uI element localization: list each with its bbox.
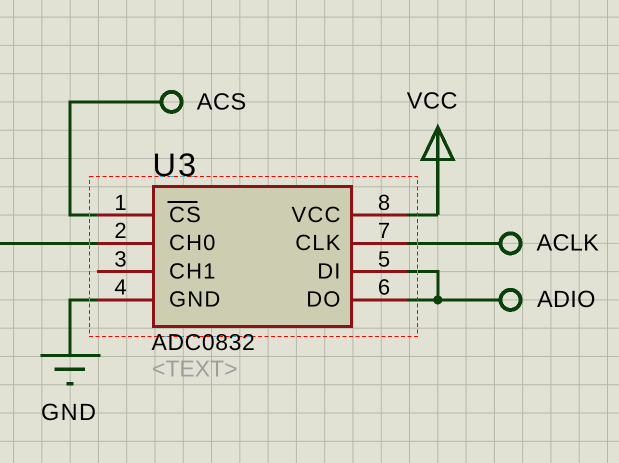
svg-text:4: 4 xyxy=(114,275,126,300)
svg-text:6: 6 xyxy=(378,275,390,300)
svg-text:CLK: CLK xyxy=(295,230,341,255)
svg-text:3: 3 xyxy=(114,246,126,271)
svg-text:1: 1 xyxy=(114,190,126,215)
svg-text:DO: DO xyxy=(306,287,341,312)
svg-text:CH1: CH1 xyxy=(169,258,217,283)
svg-text:ADIO: ADIO xyxy=(537,286,596,312)
svg-text:8: 8 xyxy=(378,190,390,215)
svg-text:VCC: VCC xyxy=(407,88,458,114)
svg-text:5: 5 xyxy=(378,246,390,271)
svg-text:ACLK: ACLK xyxy=(537,229,600,255)
svg-text:CS: CS xyxy=(169,202,202,227)
svg-text:CH0: CH0 xyxy=(169,230,217,255)
svg-text:7: 7 xyxy=(378,218,390,243)
svg-text:2: 2 xyxy=(114,218,126,243)
svg-text:ADC0832: ADC0832 xyxy=(152,329,256,355)
svg-text:GND: GND xyxy=(169,287,222,312)
svg-text:ACS: ACS xyxy=(197,89,247,115)
svg-text:VCC: VCC xyxy=(292,202,342,227)
svg-text:U3: U3 xyxy=(153,147,199,183)
svg-text:GND: GND xyxy=(41,399,97,425)
svg-text:DI: DI xyxy=(317,258,341,283)
svg-text:<TEXT>: <TEXT> xyxy=(152,356,238,382)
